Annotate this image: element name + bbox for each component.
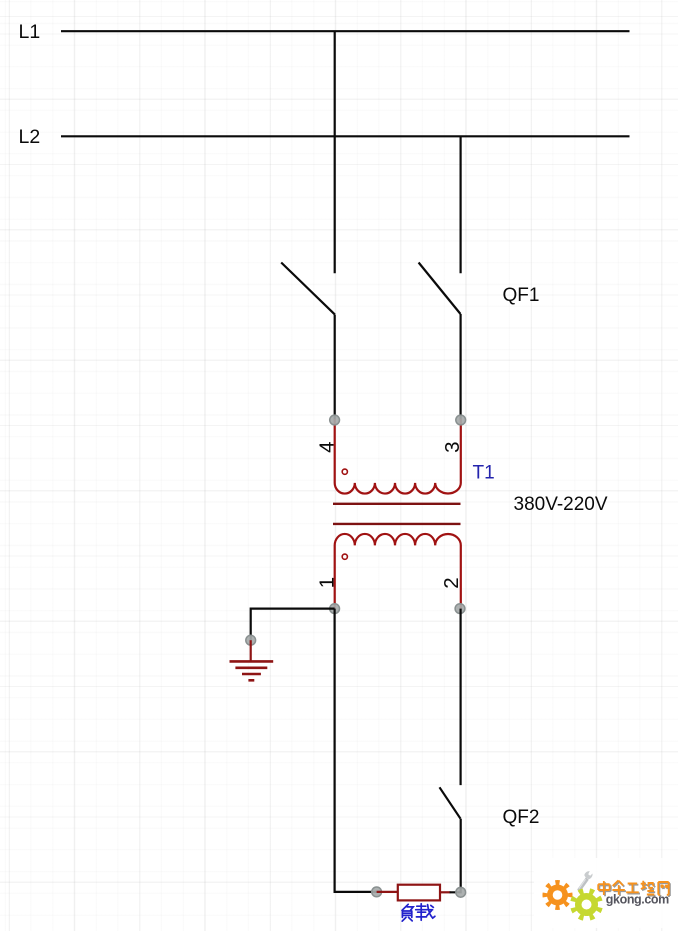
node T1 pin 3 [456,415,466,425]
logo text zhonghuagongkongwang CJK [599,882,669,897]
wire L1 down to QF1 pole A [334,31,336,273]
T1 secondary polarity dot [342,554,347,559]
node T1 pin 1 [330,604,340,614]
transformer T1 secondary winding [335,534,461,609]
svg-text:QF2: QF2 [503,807,540,828]
svg-text:gkong.com: gkong.com [606,892,669,906]
power rail L1 [61,30,630,32]
wire load to QF2 [450,819,461,893]
wire down to ground symbol [250,640,252,661]
breaker QF2 blade [440,787,461,818]
ground symbol [230,661,274,680]
load left lead [377,891,398,893]
svg-text:3: 3 [441,441,464,452]
svg-text:T1: T1 [473,463,495,484]
T1 primary polarity dot [342,469,347,474]
label fuzai (load) CJK [402,904,435,921]
node ground junction [246,635,256,645]
logo background [534,858,678,928]
svg-text:QF1: QF1 [503,285,540,306]
node load right [456,887,466,897]
logo green gear [570,888,602,920]
transformer T1 core [333,504,461,524]
svg-text:4: 4 [316,441,339,452]
resistor load body [398,885,440,901]
logo orange gear hole [553,890,563,900]
logo green gear hole [582,900,592,910]
svg-text:L2: L2 [19,126,41,148]
wire T1 pin 1 to ground branch [251,609,335,641]
node T1 pin 4 [330,415,340,425]
breaker QF1 pole A blade [281,263,335,315]
wire QF1 pole B to T1 pin 3 [460,314,462,420]
wire T1 pin 2 down to QF2 [460,609,462,786]
wire L2 down to QF1 pole B [460,136,462,273]
svg-text:1: 1 [316,577,339,588]
node load left [372,887,382,897]
logo orange gear [542,880,572,910]
logo text zhonghuagongkongwang orange layer [598,881,668,896]
node T1 pin 2 [455,604,465,614]
power rail L2 [61,135,630,137]
transformer T1 primary winding [335,419,461,494]
wire QF1 pole A to T1 pin 4 [334,315,336,420]
svg-text:L1: L1 [19,21,41,43]
load right lead [440,891,450,893]
breaker QF1 pole B blade [419,263,461,315]
svg-text:2: 2 [440,577,463,588]
logo wrench [577,871,592,892]
wire T1 pin 1 down to load [335,609,377,892]
svg-text:380V-220V: 380V-220V [514,494,608,515]
